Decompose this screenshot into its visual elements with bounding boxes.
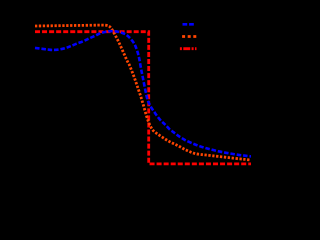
- ideal filter red step curve: [35, 32, 251, 164]
- blue dashed curve: [35, 31, 251, 156]
- orange dotted curve: [35, 25, 251, 160]
- legend orange sample: [182, 35, 196, 38]
- legend red sample: [180, 47, 197, 50]
- legend blue sample: [183, 23, 196, 26]
